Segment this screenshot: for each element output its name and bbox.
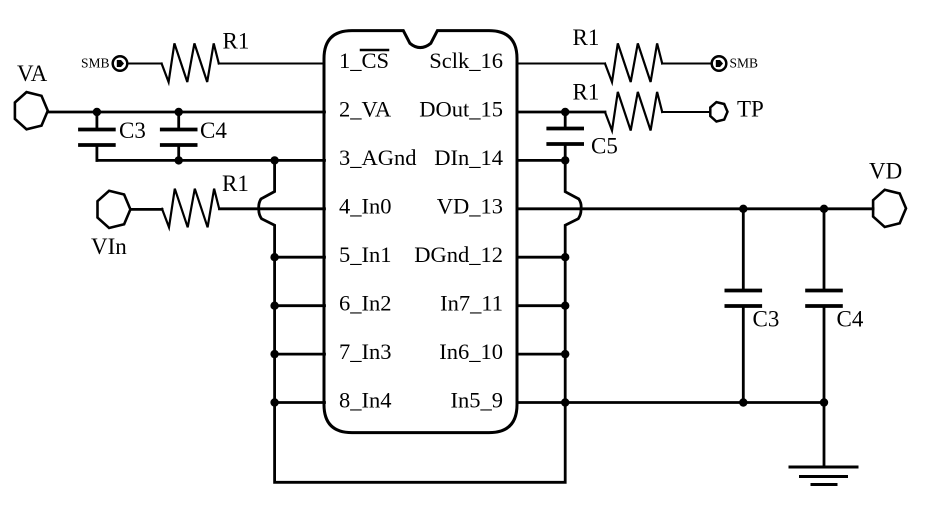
svg-text:In7_11: In7_11: [440, 291, 503, 316]
junction pin10 bus: [561, 350, 569, 358]
junction VD C4: [820, 205, 828, 213]
wire SMB-left to R1: [127, 63, 161, 65]
connector SMB right: [712, 56, 727, 71]
capacitor C4 left: [162, 112, 196, 160]
wire VA to pin2: [48, 111, 325, 114]
wire left bus with hop over In0, bottom loop, right bus with hop over VD: [259, 160, 581, 482]
svg-text:VIn: VIn: [91, 234, 127, 259]
junction C4 left top: [175, 108, 183, 116]
wire pin12 stub: [517, 256, 565, 259]
svg-text:VD_13: VD_13: [437, 194, 503, 219]
port VIn: [98, 191, 131, 228]
svg-text:SMB: SMB: [81, 56, 110, 71]
svg-text:R1: R1: [573, 80, 600, 105]
svg-text:SMB: SMB: [730, 56, 759, 71]
ground: [790, 403, 857, 485]
junction pin11 bus: [561, 302, 569, 310]
IC U1 body: [324, 31, 517, 433]
junction VD C3: [739, 205, 747, 213]
resistor R1 top-left: [162, 43, 219, 82]
svg-text:C4: C4: [837, 307, 864, 332]
junction AGnd bus: [270, 156, 278, 164]
wire pin6 stub: [275, 304, 325, 307]
svg-text:3_AGnd: 3_AGnd: [339, 145, 417, 170]
capacitor C4 right: [807, 209, 841, 403]
wire R1 to pin1: [219, 63, 325, 65]
resistor R1 DOut: [605, 92, 662, 131]
junction pin12 bus: [561, 253, 569, 261]
wire R1 to pin4: [220, 207, 325, 210]
wire pin5 stub: [275, 256, 325, 259]
svg-text:4_In0: 4_In0: [339, 194, 392, 219]
wire pin13 to VD: [517, 207, 873, 210]
wire AGnd pin3: [97, 159, 325, 162]
junction pin8 bus: [270, 398, 278, 406]
svg-text:Sclk_16: Sclk_16: [429, 48, 503, 73]
junction C4 left bottom: [175, 156, 183, 164]
svg-text:6_In2: 6_In2: [339, 291, 392, 316]
svg-text:R1: R1: [573, 25, 600, 50]
svg-text:7_In3: 7_In3: [339, 339, 392, 364]
junction In5 C3: [739, 398, 747, 406]
svg-text:R1: R1: [222, 171, 249, 196]
svg-text:C4: C4: [200, 118, 227, 143]
connector TP: [710, 102, 727, 121]
wire pin15 to R1: [517, 111, 605, 114]
svg-text:In6_10: In6_10: [439, 339, 503, 364]
port VD: [873, 190, 906, 227]
svg-text:8_In4: 8_In4: [339, 388, 392, 413]
resistor R1 Sclk: [605, 43, 662, 82]
junction pin9 bus: [561, 398, 569, 406]
wire pin14 stub: [517, 159, 565, 162]
connector SMB left: [113, 56, 128, 71]
svg-text:1_CS: 1_CS: [339, 48, 389, 73]
svg-text:C3: C3: [753, 307, 780, 332]
wire pin7 stub: [275, 353, 325, 356]
wire pin8 stub: [275, 401, 325, 404]
svg-text:TP: TP: [737, 97, 764, 122]
svg-text:C3: C3: [119, 118, 146, 143]
capacitor C3 right: [726, 209, 760, 403]
wire R1 to SMB-right: [662, 63, 712, 65]
svg-text:DOut_15: DOut_15: [419, 97, 503, 122]
wire R1 to TP: [662, 111, 710, 113]
svg-text:5_In1: 5_In1: [339, 242, 392, 267]
svg-text:C5: C5: [591, 134, 618, 159]
wire VIn to R1: [130, 208, 162, 211]
junction C5 bottom: [561, 156, 569, 164]
junction pin6 bus: [270, 302, 278, 310]
wire pin11 stub: [517, 304, 565, 307]
junction pin5 bus: [270, 253, 278, 261]
capacitor C3 left: [80, 112, 114, 160]
svg-text:In5_9: In5_9: [451, 388, 504, 413]
svg-text:VA: VA: [17, 61, 48, 86]
wire pin10 stub: [517, 353, 565, 356]
svg-text:DGnd_12: DGnd_12: [414, 242, 503, 267]
junction pin7 bus: [270, 350, 278, 358]
capacitor C5: [548, 112, 582, 160]
junction C3 left top: [93, 108, 101, 116]
junction In5 C4 ground: [820, 398, 828, 406]
pin label 1_CS: [339, 48, 389, 73]
wire pin9 to C4 right: [517, 401, 824, 404]
svg-text:R1: R1: [223, 29, 250, 54]
svg-text:DIn_14: DIn_14: [434, 145, 503, 170]
port VA: [15, 92, 48, 129]
svg-text:VD: VD: [869, 159, 902, 184]
resistor R1 VIn: [162, 189, 219, 228]
wire pin16 to R1: [517, 63, 605, 65]
svg-text:2_VA: 2_VA: [339, 97, 392, 122]
junction C5 top: [561, 108, 569, 116]
